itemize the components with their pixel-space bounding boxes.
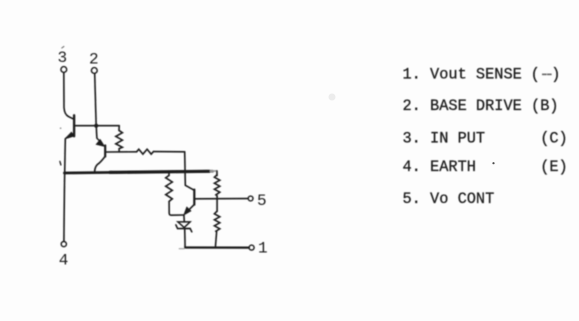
terminal 4 circle [61,242,66,247]
transistor Q1 emitter arrow [65,132,74,139]
zener D1 triangle [178,222,190,228]
stray mark tick [60,161,61,165]
resistor R3 top stub from bus [168,172,170,176]
svg-text:2. BASE DRIVE (B): 2. BASE DRIVE (B) [403,97,559,115]
svg-text:3: 3 [58,49,68,67]
terminal 1 circle [249,245,254,250]
wire R4/R5 midpoint [216,199,218,212]
transistor Q2 emitter lead [97,139,101,143]
faint smudge [329,94,336,101]
svg-text:3. IN PUT (C): 3. IN PUT (C) [403,129,568,147]
resistor R4 [214,175,219,199]
stray dot near EARTH [492,162,494,164]
wire pin3 to Q1 collector [64,73,74,120]
svg-text:4. EARTH (E): 4. EARTH (E) [403,158,568,176]
transistor Q1 base bar [73,115,75,136]
wire zener to pin1 rail [184,229,186,248]
transistor Q3 base wire to pin5 [195,198,248,200]
transistor Q2 emitter arrow [96,140,104,147]
stray faint dot [60,127,62,129]
resistor R2 [137,149,154,154]
resistor R1 top stub [118,126,120,131]
wire corner down to Q3 collector [185,152,194,190]
pin1 rail wire [185,246,249,248]
wire Q1 emitter to pin4 [64,139,65,241]
svg-text:4: 4 [59,252,69,270]
wire Q2 emitter (node A down) [95,126,98,138]
transistor Q3 emitter arrow [184,207,191,215]
transistor Q3 emitter lead [187,205,195,213]
bus wire thick overlay [110,171,209,172]
resistor R5 bottom stub [215,232,216,248]
svg-text:5. Vo CONT: 5. Vo CONT [403,190,495,208]
resistor R4 top stub [216,171,218,176]
transistor Q3 base bar [193,190,195,205]
terminal 2 circle [91,68,97,74]
transistor Q2 base wire [106,151,137,153]
transistor Q1 emitter lead [66,133,74,138]
svg-text:5: 5 [257,192,267,210]
bus wire (Vout rail) [64,171,212,173]
resistor R5 [214,211,219,232]
stray tick above terminal 3 label [62,46,64,48]
terminal 5 circle [248,196,253,201]
resistor R3 [166,175,173,201]
svg-text:1. Vout SENSE (--): 1. Vout SENSE (--) [403,66,561,84]
svg-text:1: 1 [258,240,268,258]
wire pin2 down to node A [95,74,96,124]
svg-text:2: 2 [89,51,99,69]
stray dashes left of pin1 rail [179,248,184,250]
node A junction dot (Q1 base / pin2 / Q2 emitter) [94,124,98,128]
wire R2 to corner [153,151,184,153]
resistor R1 [116,130,123,151]
transistor Q1 base wire [75,125,119,127]
transistor Q2 collector lead [95,157,105,173]
zener D1 top stem (node B) [183,215,185,222]
wire R3 bottom elbow to node B [169,201,184,215]
transistor Q2 base bar [104,146,106,157]
bus fade to R4 [211,170,217,172]
terminal 3 circle [61,67,67,73]
legend text [403,66,568,209]
zener D1 cathode bar with wings [176,225,192,232]
